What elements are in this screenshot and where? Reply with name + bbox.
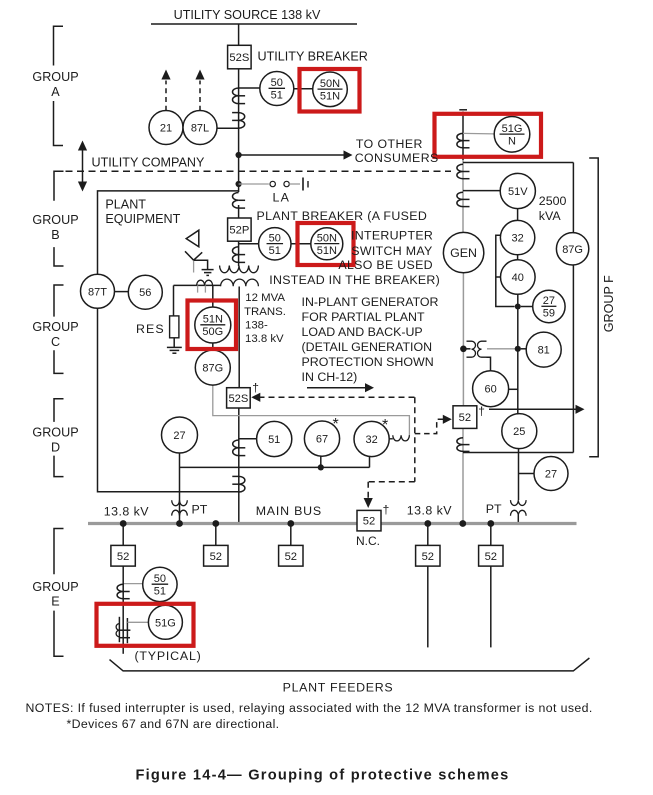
svg-text:N.C.: N.C. xyxy=(356,534,380,548)
wire 60 to line xyxy=(509,388,518,390)
dagger 52 generator xyxy=(478,404,485,418)
svg-text:RES: RES xyxy=(136,322,165,336)
label PT generator xyxy=(486,502,502,516)
relay 67 xyxy=(304,416,339,456)
group B bracket xyxy=(54,171,64,266)
wire junction to 27/59 xyxy=(521,306,533,308)
label TO OTHER CONSUMERS xyxy=(355,137,439,165)
group F bracket xyxy=(589,158,598,457)
svg-text:CONSUMERS: CONSUMERS xyxy=(355,151,439,165)
breaker 52 feeder 3 xyxy=(279,545,303,566)
svg-text:ALSO BE USED: ALSO BE USED xyxy=(338,258,433,272)
node junction aux transformer xyxy=(460,346,467,353)
CT generator frame xyxy=(457,164,470,178)
label UTILITY COMPANY xyxy=(92,155,205,169)
caption Figure 14-4 xyxy=(135,768,509,784)
relay 87G transformer xyxy=(195,350,230,385)
wire feeder 5 tail xyxy=(490,524,492,648)
dagger 52S transfer xyxy=(252,381,259,395)
label 2500 kVA xyxy=(539,194,567,223)
node junction to consumers xyxy=(236,152,242,158)
wire 32 to common xyxy=(369,457,371,468)
wire aux junction stub xyxy=(463,348,470,350)
svg-text:PLANT BREAKER (A FUSED: PLANT BREAKER (A FUSED xyxy=(257,209,428,223)
wire 67 to common xyxy=(320,456,322,467)
CT gen breaker xyxy=(457,438,470,452)
highlight box 51G/N generator xyxy=(435,114,542,157)
svg-text:51: 51 xyxy=(269,245,281,257)
wire RES drop xyxy=(173,285,175,316)
svg-text:LA: LA xyxy=(273,190,291,204)
svg-text:EQUIPMENT: EQUIPMENT xyxy=(105,212,180,226)
node bus feeder 3 xyxy=(287,520,294,527)
svg-text:13.8 kV: 13.8 kV xyxy=(104,504,149,518)
svg-text:52: 52 xyxy=(117,551,129,563)
svg-text:kVA: kVA xyxy=(539,209,562,223)
CT 87T transformer side xyxy=(197,280,213,292)
svg-text:52S: 52S xyxy=(228,393,248,405)
svg-text:51: 51 xyxy=(154,586,166,598)
wire 25 to PT xyxy=(518,449,520,500)
wire 50/51 to 50N/51N xyxy=(294,88,315,90)
relay 32 upper xyxy=(500,220,534,254)
CT 51G/N generator xyxy=(457,133,494,147)
relay 51N/50G xyxy=(195,307,231,343)
svg-text:GROUP: GROUP xyxy=(32,213,78,227)
svg-text:C: C xyxy=(51,335,60,349)
label PT main xyxy=(192,502,208,516)
transformer 2500 kVA coil xyxy=(457,191,500,207)
svg-text:UTILITY BREAKER: UTILITY BREAKER xyxy=(258,50,368,64)
svg-text:SWITCH MAY: SWITCH MAY xyxy=(351,244,432,258)
svg-text:B: B xyxy=(51,228,59,242)
svg-text:13.8 kV: 13.8 kV xyxy=(407,504,452,518)
wire 87T CT loop (plant equipment boundary) xyxy=(98,191,239,492)
svg-text:60: 60 xyxy=(484,384,496,396)
label notes line 2 xyxy=(67,717,280,731)
svg-text:E: E xyxy=(51,594,59,608)
wire to other consumers arrow xyxy=(239,150,353,159)
svg-text:52S: 52S xyxy=(229,52,249,64)
svg-text:87G: 87G xyxy=(562,244,583,256)
generator neutral ground dash xyxy=(459,109,467,111)
relay 27 bus xyxy=(162,417,198,453)
svg-text:27: 27 xyxy=(543,295,555,307)
node bus PT xyxy=(176,520,183,527)
wire junction to 25 xyxy=(517,349,519,414)
relay 60 xyxy=(473,371,509,407)
svg-text:N: N xyxy=(508,136,516,148)
breaker 52 generator xyxy=(453,406,477,429)
svg-text:51V: 51V xyxy=(508,186,528,198)
svg-text:50: 50 xyxy=(269,232,281,244)
wire 87G to main line (gray) xyxy=(213,385,410,436)
svg-text:GROUP F: GROUP F xyxy=(602,275,616,332)
svg-text:51N: 51N xyxy=(320,91,340,103)
svg-text:2500: 2500 xyxy=(539,194,567,208)
svg-text:GROUP: GROUP xyxy=(32,320,78,334)
wire 51N-50G to 87G xyxy=(212,343,214,351)
wire group F frame right xyxy=(572,163,574,453)
relay 21 xyxy=(149,111,183,145)
wire 32 to 40 xyxy=(517,255,519,260)
dagger 52 NC xyxy=(383,503,390,517)
svg-text:NOTES: If fused interrupter is: NOTES: If fused interrupter is used, rel… xyxy=(26,701,593,715)
bracket 32/40 left tie xyxy=(496,235,515,306)
svg-text:52: 52 xyxy=(285,551,297,563)
node LA junction xyxy=(236,181,242,187)
CT coil right of 32 xyxy=(389,435,409,441)
utility/plant double arrow xyxy=(78,141,87,192)
relay 25 xyxy=(502,414,537,449)
resistor RES xyxy=(167,316,182,353)
dashed arrow over 87L xyxy=(195,70,204,111)
svg-text:50N: 50N xyxy=(320,78,340,90)
label GROUP B xyxy=(32,213,78,242)
highlight box 51N/50G xyxy=(188,301,237,350)
svg-text:PLANT: PLANT xyxy=(105,197,146,211)
CT 87T lower xyxy=(232,476,245,492)
wire 87T to 56 xyxy=(115,291,129,293)
svg-text:50N: 50N xyxy=(317,232,337,244)
node bus feeder 2 xyxy=(212,520,219,527)
svg-text:12 MVA: 12 MVA xyxy=(245,292,285,304)
dashed arrow over 21 xyxy=(161,70,170,111)
svg-text:27: 27 xyxy=(173,430,185,442)
label LA xyxy=(273,190,291,204)
label notes line 1 xyxy=(26,701,593,715)
relay 87G generator xyxy=(556,233,588,265)
svg-text:50: 50 xyxy=(271,77,283,89)
svg-text:GROUP: GROUP xyxy=(32,70,78,84)
label GROUP A xyxy=(32,70,78,99)
relay 50/51 feeder xyxy=(143,567,177,601)
label MAIN BUS xyxy=(256,504,322,518)
label 13.8 kV right xyxy=(407,504,452,518)
wire 50/51 to 50N/51N plant xyxy=(291,243,311,245)
relay 51G feeder xyxy=(148,605,182,639)
node bus feeder 5 xyxy=(487,520,494,527)
svg-text:UTILITY COMPANY: UTILITY COMPANY xyxy=(92,155,205,169)
wire gen 52 to bus (gray) xyxy=(462,428,464,523)
breaker 52P plant xyxy=(228,218,252,241)
svg-text:INSTEAD IN THE BREAKER): INSTEAD IN THE BREAKER) xyxy=(269,273,440,287)
group C bracket xyxy=(54,285,64,373)
label GROUP E xyxy=(32,580,78,609)
label GROUP C xyxy=(32,320,78,349)
PT generator bus xyxy=(511,500,527,516)
relay 87T xyxy=(81,274,115,308)
svg-text:MAIN BUS: MAIN BUS xyxy=(256,504,322,518)
svg-text:52: 52 xyxy=(422,551,434,563)
wire 52S to CT xyxy=(238,69,240,192)
svg-text:51N: 51N xyxy=(203,314,223,326)
wire 27 drop to PT xyxy=(179,453,181,524)
svg-text:IN CH-12): IN CH-12) xyxy=(302,370,358,384)
svg-text:PLANT FEEDERS: PLANT FEEDERS xyxy=(283,681,394,695)
label UTILITY SOURCE 138 kV xyxy=(174,8,321,22)
svg-text:51: 51 xyxy=(271,90,283,102)
wire 40 to junction xyxy=(517,294,519,349)
svg-text:GROUP: GROUP xyxy=(32,580,78,594)
svg-text:GEN: GEN xyxy=(450,246,477,260)
label PLANT FEEDERS xyxy=(283,681,394,695)
svg-text:PT: PT xyxy=(192,502,208,516)
wire junction to 81 xyxy=(521,348,526,350)
transformer 12MVA secondary winding xyxy=(221,279,259,286)
wire feeder 3 stub xyxy=(290,524,292,546)
relay 50/51 utility xyxy=(260,72,294,106)
wire aux to 81 (gray) xyxy=(487,348,518,350)
breaker 52 NC tie xyxy=(357,510,381,531)
wire GEN to aux junction (gray) xyxy=(462,273,464,406)
label (TYPICAL) xyxy=(135,649,202,663)
CT 87T upper xyxy=(233,193,246,209)
label 12 MVA transformer xyxy=(244,292,286,345)
svg-text:50: 50 xyxy=(154,573,166,585)
wye winding symbol xyxy=(185,251,214,275)
wire 52P to transformer xyxy=(238,241,240,266)
node bus feeder 4 xyxy=(424,520,431,527)
wire feeder 4 tail xyxy=(427,524,429,648)
relay 50/51 plant xyxy=(259,228,291,260)
svg-text:52: 52 xyxy=(363,516,375,528)
CT utility breaker phase xyxy=(233,88,260,104)
svg-text:†: † xyxy=(383,503,390,517)
highlight box 50N/51N utility xyxy=(300,69,360,112)
svg-text:FOR PARTIAL PLANT: FOR PARTIAL PLANT xyxy=(302,310,425,324)
wire feeder 1 tail xyxy=(122,524,124,654)
svg-text:TO OTHER: TO OTHER xyxy=(356,137,423,151)
breaker 52S transfer xyxy=(227,388,251,408)
arrow group F out xyxy=(489,405,585,414)
svg-text:*Devices 67 and 67N are direct: *Devices 67 and 67N are directional. xyxy=(67,717,280,731)
svg-text:81: 81 xyxy=(538,345,550,357)
node junction 81 xyxy=(515,346,521,352)
wire group F frame bottom xyxy=(463,452,573,454)
node bus generator xyxy=(459,520,466,527)
ground CT window feeder 1 xyxy=(116,617,148,643)
wire 51V to 32 xyxy=(517,191,519,221)
highlight box 51G feeder xyxy=(97,604,194,646)
svg-text:D: D xyxy=(51,440,60,454)
svg-text:87T: 87T xyxy=(88,286,107,298)
relay 27/59 xyxy=(533,290,565,322)
label GROUP F xyxy=(602,275,616,332)
relay 56 xyxy=(128,275,162,309)
svg-text:52: 52 xyxy=(459,412,471,424)
CT feeder 1 xyxy=(117,584,143,599)
label PLANT EQUIPMENT xyxy=(105,197,180,226)
dashed wire to 52S transfer xyxy=(251,393,414,402)
utility company boundary dashed line xyxy=(54,170,451,172)
svg-text:87G: 87G xyxy=(202,363,223,375)
svg-text:13.8 kV: 13.8 kV xyxy=(245,333,284,345)
svg-text:52: 52 xyxy=(210,551,222,563)
svg-text:21: 21 xyxy=(160,122,172,134)
svg-text:138-: 138- xyxy=(245,319,268,331)
wire LA branch xyxy=(239,183,269,185)
relay 27 generator xyxy=(534,457,568,491)
plant feeders brace xyxy=(110,658,590,671)
relay 40 xyxy=(501,260,536,295)
svg-text:PROTECTION SHOWN: PROTECTION SHOWN xyxy=(302,355,434,369)
wire aux secondary to 60 xyxy=(487,357,491,371)
svg-text:27: 27 xyxy=(545,468,557,480)
wire group F frame top xyxy=(463,162,573,164)
svg-text:*: * xyxy=(382,417,388,434)
svg-text:67: 67 xyxy=(316,434,328,446)
svg-text:50G: 50G xyxy=(202,326,223,338)
svg-text:GROUP: GROUP xyxy=(32,426,78,440)
label N.C. xyxy=(356,534,380,548)
svg-text:87L: 87L xyxy=(191,122,209,134)
wire transformer secondary drop xyxy=(238,287,240,388)
transformer 12MVA primary winding xyxy=(220,266,259,273)
wire 27 right tie xyxy=(519,473,535,475)
dashed wire transfer to gen 52 xyxy=(415,415,452,434)
label in-plant generator note xyxy=(302,295,439,384)
wire generator line to GEN (gray) xyxy=(462,160,464,233)
svg-text:TRANS.: TRANS. xyxy=(244,306,286,318)
relay 50N/51N plant xyxy=(311,228,343,260)
switch contacts LA xyxy=(270,181,300,186)
dashed wire transfer down xyxy=(414,397,416,481)
PT main bus xyxy=(172,500,188,515)
label GROUP D xyxy=(32,426,78,455)
svg-text:INTERUPTER: INTERUPTER xyxy=(351,229,433,243)
label RES xyxy=(136,322,165,336)
svg-text:IN-PLANT GENERATOR: IN-PLANT GENERATOR xyxy=(302,295,439,309)
utility source line xyxy=(151,23,357,25)
wire feeder 2 stub xyxy=(215,524,217,546)
main bus 13.8 kV xyxy=(88,522,577,525)
svg-text:51N: 51N xyxy=(317,245,337,257)
node junction under 67 xyxy=(318,464,324,470)
CT feeder relays xyxy=(233,439,257,456)
svg-text:LOAD AND BACK-UP: LOAD AND BACK-UP xyxy=(302,325,423,339)
label 13.8 kV left xyxy=(104,504,149,518)
label plant breaker note xyxy=(257,209,441,287)
svg-text:UTILITY SOURCE 138 kV: UTILITY SOURCE 138 kV xyxy=(174,8,321,22)
svg-text:32: 32 xyxy=(511,233,523,245)
node bus feeder 1 xyxy=(120,520,127,527)
arrow in CH-12 xyxy=(307,383,374,392)
dashed wire transfer to NC xyxy=(364,482,415,508)
svg-text:*: * xyxy=(333,416,339,433)
wire 87T secondary conductor xyxy=(174,284,221,286)
relay 32 feeder xyxy=(354,417,389,457)
relay 51V xyxy=(500,173,535,208)
breaker 52 feeder 5 xyxy=(479,545,503,566)
relay 81 xyxy=(526,332,561,367)
relay 51 xyxy=(257,421,292,456)
wire utility source drop xyxy=(238,24,240,45)
svg-text:40: 40 xyxy=(512,272,524,284)
svg-text:A: A xyxy=(51,85,60,99)
svg-text:51: 51 xyxy=(268,434,280,446)
svg-text:†: † xyxy=(252,381,259,395)
svg-text:51G: 51G xyxy=(502,123,523,135)
generator GEN xyxy=(443,232,483,272)
svg-text:56: 56 xyxy=(139,287,151,299)
delta winding symbol xyxy=(186,230,199,247)
svg-text:Figure 14-4— Grouping of prote: Figure 14-4— Grouping of protective sche… xyxy=(135,768,509,784)
CT plant breaker xyxy=(233,244,259,263)
label UTILITY BREAKER xyxy=(258,50,368,64)
svg-text:59: 59 xyxy=(543,308,555,320)
svg-text:52P: 52P xyxy=(229,225,249,237)
breaker 52S utility xyxy=(228,45,252,69)
svg-text:25: 25 xyxy=(513,426,525,438)
svg-text:51G: 51G xyxy=(155,617,176,629)
svg-text:32: 32 xyxy=(365,434,377,446)
group A bracket xyxy=(54,26,64,145)
group D bracket xyxy=(54,399,64,477)
group E bracket xyxy=(54,529,64,657)
wire 51N-50G drop xyxy=(212,285,214,308)
svg-text:PT: PT xyxy=(486,502,502,516)
highlight box 50N/51N plant xyxy=(298,223,354,265)
wire plant breaker drop xyxy=(238,205,240,218)
lightning arrester LA xyxy=(303,178,308,191)
CT utility breaker ground xyxy=(217,113,245,129)
wire generator top xyxy=(462,112,464,161)
wire 67/32 common conductor xyxy=(180,466,370,468)
svg-text:(DETAIL GENERATION: (DETAIL GENERATION xyxy=(302,340,433,354)
svg-text:(TYPICAL): (TYPICAL) xyxy=(135,649,202,663)
wire main line to bus xyxy=(238,408,240,524)
wire PT right to bus xyxy=(517,516,519,524)
relay 50N/51N utility xyxy=(313,72,348,107)
breaker 52 feeder 4 xyxy=(416,545,440,566)
breaker 52 feeder 1 xyxy=(111,545,135,566)
aux transformer coils xyxy=(467,341,487,357)
breaker 52 feeder 2 xyxy=(204,545,228,566)
relay 51G/N generator xyxy=(494,117,530,153)
node junction 27/59 xyxy=(515,304,521,310)
relay 87L xyxy=(183,111,217,145)
svg-text:52: 52 xyxy=(485,551,497,563)
